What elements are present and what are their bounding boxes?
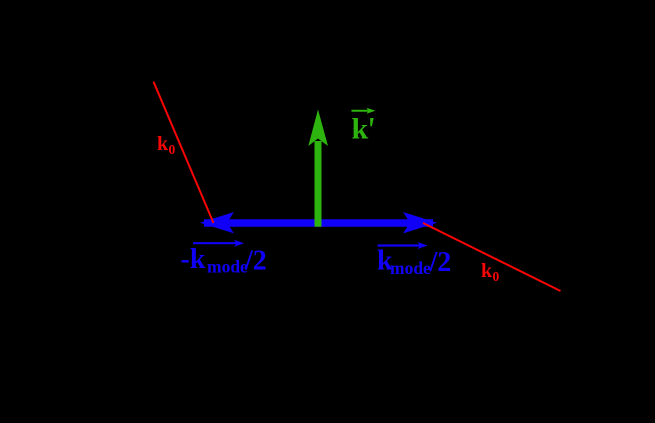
svg-text:0: 0 xyxy=(493,269,500,284)
svg-text:k: k xyxy=(481,260,493,282)
red line k0 incident (left) xyxy=(154,82,214,223)
green vector bar over k' xyxy=(352,110,372,112)
green arrow k' shaft xyxy=(315,141,322,227)
node right arrowhead of blue double arrow xyxy=(403,212,437,233)
svg-text:/2: /2 xyxy=(244,246,267,277)
svg-text:0: 0 xyxy=(169,142,176,157)
svg-text:/2: /2 xyxy=(429,247,452,278)
svg-text:k: k xyxy=(352,113,369,146)
svg-text:mode: mode xyxy=(207,257,248,277)
svg-text:-k: -k xyxy=(181,244,206,275)
green arrowhead xyxy=(308,110,328,147)
blue vector bar over -k_mode/2 xyxy=(193,242,239,244)
svg-text:mode: mode xyxy=(390,258,431,278)
svg-text:k: k xyxy=(157,133,169,155)
blue vector bar over k_mode/2 xyxy=(378,244,423,246)
red line k0 outgoing (right) xyxy=(423,223,561,291)
wire blue double-arrow shaft (k_mode axis) xyxy=(204,219,433,226)
node left arrowhead of blue double arrow xyxy=(200,212,234,233)
